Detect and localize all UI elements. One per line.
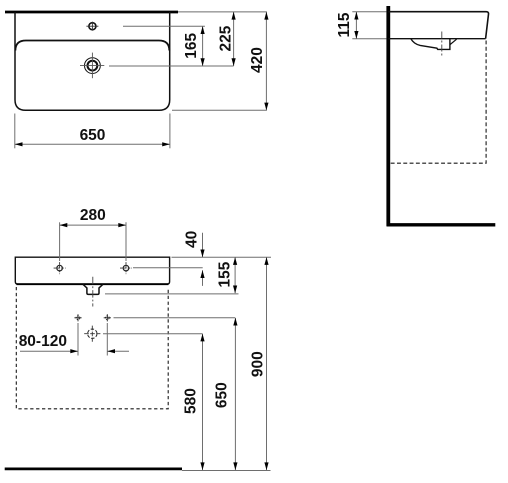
- tap hole: [80, 53, 104, 79]
- dimension 650 (height): [214, 318, 238, 470]
- basin rim outline (plan): [15, 12, 170, 110]
- 280 extension lines: [59, 222, 61, 261]
- bowl profile: [411, 39, 450, 50]
- wall line (thick vertical): [386, 6, 390, 226]
- basin deck profile: [388, 12, 488, 39]
- svg-text:40: 40: [183, 231, 200, 248]
- floor line (thick): [387, 223, 496, 226]
- dimension 165: [183, 26, 205, 66]
- dashed cover outline (side): [390, 41, 486, 164]
- fixing hole right: [120, 262, 132, 274]
- dimension 280: [60, 207, 126, 227]
- svg-text:225: 225: [217, 25, 234, 51]
- svg-text:650: 650: [214, 382, 231, 408]
- wall fixing marker left (+): [74, 314, 81, 321]
- basin front bottom edge (bold): [17, 283, 169, 285]
- dimension 650 (width): [15, 127, 170, 146]
- svg-text:280: 280: [80, 207, 106, 224]
- svg-text:165: 165: [183, 32, 200, 58]
- wall fixing marker right (+): [104, 314, 111, 321]
- basin deck bottom edge: [388, 38, 485, 40]
- drain back slope: [450, 39, 457, 44]
- svg-text:420: 420: [249, 47, 266, 73]
- svg-text:80-120: 80-120: [19, 333, 67, 350]
- svg-text:650: 650: [80, 127, 106, 144]
- dimension 115: [336, 12, 358, 39]
- dimension 420: [249, 12, 268, 110]
- dimension 155: [217, 257, 238, 293]
- dimension 225: [217, 12, 235, 66]
- drain centerline: [441, 32, 443, 57]
- dimension 900: [250, 257, 269, 470]
- wall line (thick): [5, 11, 178, 14]
- svg-text:580: 580: [183, 388, 200, 414]
- drain level reference line (580 top): [103, 333, 203, 335]
- wall line thin extension: [178, 11, 267, 13]
- dimension 80-120 (outside arrows): [19, 333, 129, 353]
- 650 extension lines: [14, 114, 16, 149]
- extension line from overflow: [123, 25, 205, 27]
- dashed cover outline (front): [16, 287, 168, 409]
- basin front outline: [15, 257, 169, 284]
- svg-text:155: 155: [217, 261, 234, 287]
- overflow hole: [86, 22, 98, 31]
- 80-120 extension lines: [77, 323, 79, 356]
- fixing hole left: [54, 262, 66, 274]
- holes level extension line: [133, 267, 203, 269]
- bowl rear edge (plan): [15, 41, 169, 51]
- drain pipe marker (circle): [84, 326, 100, 342]
- floor line thin extension: [182, 470, 271, 472]
- extension line bottom edge to 420: [172, 109, 267, 111]
- svg-text:115: 115: [336, 12, 353, 37]
- dimension 580: [183, 334, 205, 470]
- markers level reference line (650 top): [114, 317, 236, 319]
- extension line from tap hole: [109, 65, 234, 67]
- drain centerline (front): [92, 277, 94, 307]
- top edge extension line: [172, 256, 272, 258]
- svg-text:900: 900: [250, 351, 267, 377]
- drain outlet (front): [83, 284, 103, 294]
- floor line (thick): [5, 468, 182, 471]
- dimension 40 (outside arrows): [183, 231, 204, 286]
- 155 bottom reference line (drain bottom): [105, 293, 239, 295]
- 115 extension lines: [352, 11, 386, 13]
